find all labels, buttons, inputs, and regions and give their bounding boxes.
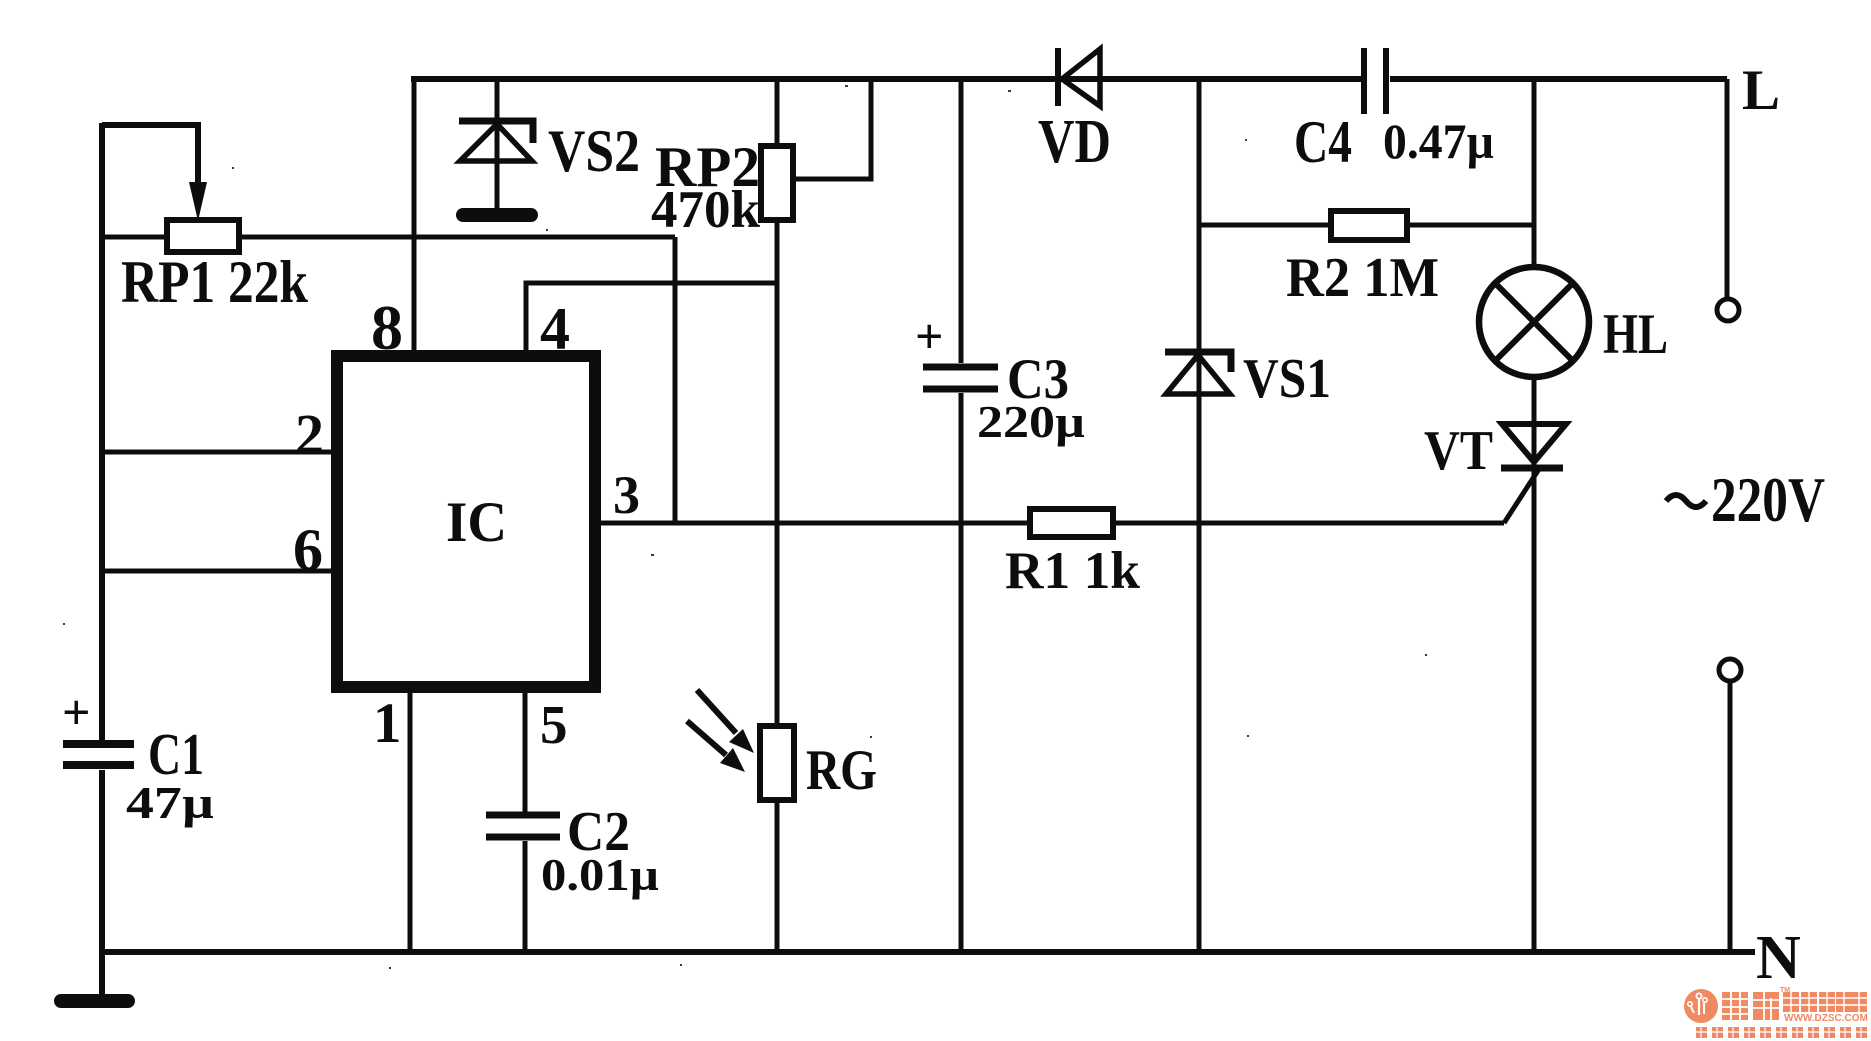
wire: C2 to bottom rail: [523, 841, 528, 952]
capacitor C2 top plate: [486, 812, 560, 819]
svg-text:2: 2: [295, 402, 324, 467]
wire: HL branch upper: [1532, 79, 1537, 268]
svg-text:470k: 470k: [651, 181, 761, 239]
svg-text:0.01µ: 0.01µ: [541, 849, 659, 900]
diode VD triangle: [1062, 49, 1100, 106]
wire: bottom rail: [100, 949, 1755, 955]
diode VD cathode bar: [1055, 48, 1061, 106]
svg-text:220V: 220V: [1711, 465, 1825, 535]
wire: left vertical rail upper: [99, 123, 105, 740]
wire: RP1 row: [102, 235, 675, 240]
svg-text:220µ: 220µ: [977, 396, 1085, 447]
potentiometer RP1 arrow: [189, 182, 207, 221]
svg-text:+: +: [62, 684, 91, 740]
terminal N lead: [1728, 681, 1733, 952]
zener VS1 cathode bar: [1165, 352, 1231, 372]
wire: pin 8: [412, 79, 417, 356]
watermark medium characters: [1783, 992, 1867, 1012]
zener VS2 lead: [495, 79, 500, 209]
wire: RG to bottom rail: [775, 800, 780, 952]
potentiometer RP2 body: [761, 146, 793, 220]
wire: R2 row: [1199, 223, 1535, 228]
svg-text:RP1 22k: RP1 22k: [121, 249, 309, 315]
svg-text:VS2: VS2: [548, 118, 640, 184]
IC U1 body: [337, 356, 595, 687]
wire: pin 4 bracket: [526, 283, 777, 356]
resistor R2 body: [1331, 211, 1407, 240]
wire: pin 5 upper: [523, 687, 528, 812]
label ~220V tilde: [1666, 495, 1706, 507]
wire: top supply rail left segment: [411, 76, 1361, 82]
wire: pin 1: [408, 687, 413, 952]
svg-text:L: L: [1742, 59, 1780, 122]
wire: pin 2: [102, 450, 337, 455]
svg-text:VD: VD: [1038, 108, 1111, 176]
wire: HL to VT and down to bottom rail: [1532, 377, 1537, 952]
wire: pin 6: [102, 569, 337, 574]
svg-text:RG: RG: [806, 739, 877, 802]
zener VS1 triangle: [1166, 355, 1230, 394]
wire: C3 branch lower: [959, 393, 964, 952]
lamp HL circle: [1479, 267, 1589, 377]
capacitor C2 bottom plate: [486, 834, 560, 841]
terminal L lead: [1725, 79, 1730, 298]
watermark big characters: [1722, 992, 1779, 1020]
RG light arrow 1: [697, 690, 736, 733]
svg-text:C4: C4: [1294, 109, 1352, 175]
svg-text:R1 1k: R1 1k: [1005, 542, 1141, 600]
svg-text:1: 1: [373, 692, 402, 755]
ground of VS2: [463, 208, 531, 222]
wire: RP2 bottom lead down through pin3 row to RG: [775, 216, 780, 726]
svg-text:TM: TM: [1780, 987, 1790, 994]
wire: node RP1 wiper to pin 3: [673, 237, 678, 523]
svg-text:47µ: 47µ: [126, 777, 214, 828]
svg-text:VT: VT: [1424, 420, 1493, 482]
capacitor C1 bottom plate: [63, 761, 134, 769]
wire: pin 3 row: [595, 521, 1504, 526]
svg-text:6: 6: [293, 517, 323, 583]
capacitor C3 top plate: [923, 364, 998, 371]
photoresistor RG body: [760, 726, 794, 800]
svg-text:+: +: [915, 308, 944, 364]
capacitor C1 top plate: [63, 740, 134, 748]
capacitor C4 right plate: [1383, 48, 1389, 114]
thyristor VT gate: [1504, 469, 1539, 523]
svg-text:0.47µ: 0.47µ: [1383, 113, 1494, 169]
wire: RP2 top lead: [775, 79, 780, 150]
zener VS2 triangle: [460, 124, 532, 161]
wire: RP2 wiper: [793, 79, 871, 179]
svg-text:R2 1M: R2 1M: [1286, 247, 1439, 309]
svg-text:VS1: VS1: [1243, 348, 1331, 410]
RG light arrow 2: [687, 721, 726, 755]
capacitor C4 left plate: [1361, 48, 1367, 114]
svg-text:N: N: [1756, 924, 1801, 992]
svg-text:HL: HL: [1603, 303, 1668, 366]
terminal N circle: [1719, 659, 1741, 681]
svg-text:5: 5: [540, 694, 568, 755]
watermark logo circle: [1684, 989, 1718, 1023]
wire: VS1 branch vertical: [1197, 79, 1202, 952]
thyristor VT triangle: [1502, 424, 1566, 462]
wire: C3 branch upper: [959, 79, 964, 363]
wire: top supply rail right segment: [1390, 76, 1727, 82]
lamp HL cross: [1495, 283, 1573, 361]
wire: RP1 top bracket: [102, 125, 198, 184]
ground symbol: [61, 994, 128, 1008]
thyristor VT cathode bar: [1501, 465, 1563, 472]
watermark bottom row characters: [1696, 1027, 1867, 1038]
svg-text:3: 3: [613, 465, 640, 525]
resistor R1 body: [1030, 509, 1113, 537]
zener VS2 cathode bar: [459, 121, 533, 143]
wire: left vertical rail lower to ground: [99, 770, 105, 1001]
svg-text:IC: IC: [446, 491, 507, 554]
terminal L circle: [1717, 299, 1739, 321]
capacitor C3 bottom plate: [923, 386, 998, 393]
svg-text:WWW.DZSC.COM: WWW.DZSC.COM: [1784, 1013, 1868, 1024]
potentiometer RP1 body: [167, 220, 239, 252]
